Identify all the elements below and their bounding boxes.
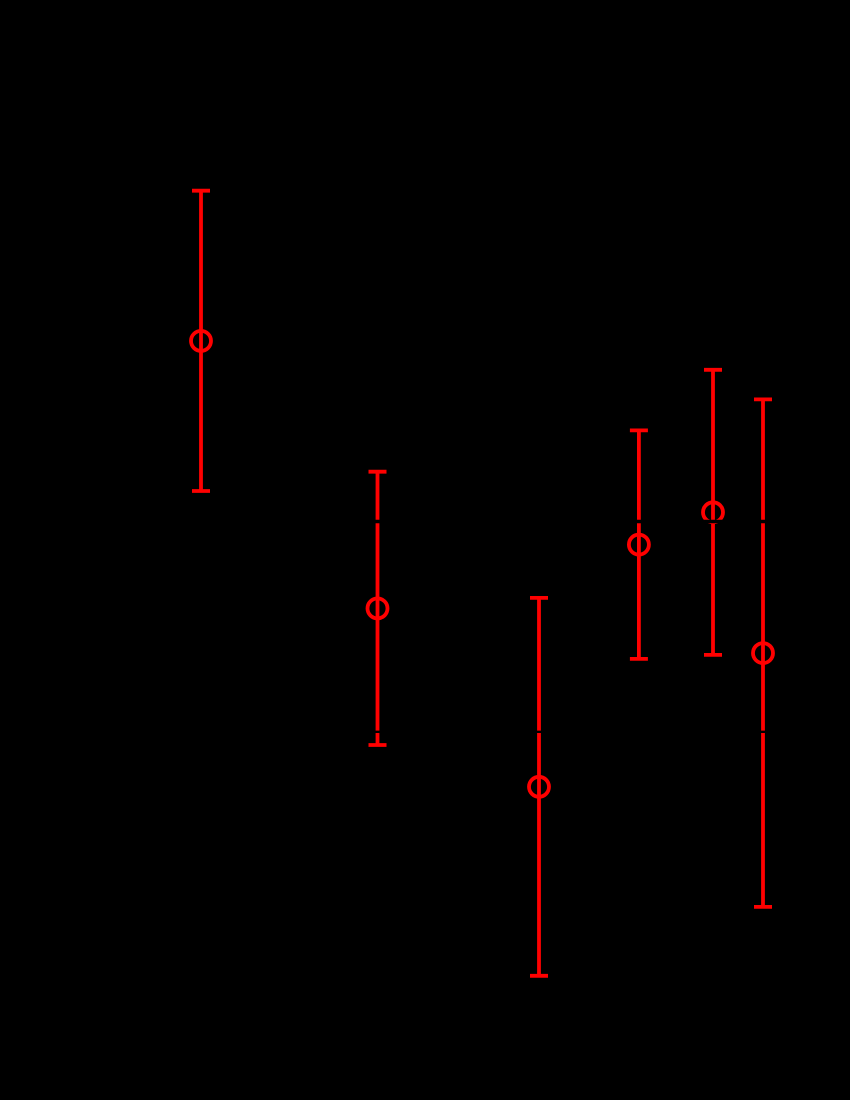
top cap 1 <box>192 189 210 193</box>
bottom cap 3 <box>530 974 548 978</box>
bottom cap 5 <box>704 653 722 657</box>
bottom cap 2 <box>369 743 387 747</box>
wire: CI vertical line 6 <box>761 399 765 907</box>
mean point circle 5 <box>703 502 723 522</box>
top cap 2 <box>369 470 387 474</box>
wire: CI vertical line 3 <box>537 598 541 976</box>
error bar group 1 <box>191 191 211 491</box>
error bar group 6 <box>753 399 773 907</box>
mean point circle 2 <box>368 598 388 618</box>
top cap 6 <box>754 397 772 401</box>
bottom cap 4 <box>630 657 648 661</box>
error bar group 5 <box>703 370 723 655</box>
mean point circle 3 <box>529 777 549 797</box>
error bar group 3 <box>529 598 549 976</box>
error bar group 4 <box>629 430 649 659</box>
wire: CI vertical line 2 <box>376 472 380 745</box>
bottom cap 6 <box>754 905 772 909</box>
error bar group 2 <box>368 472 388 745</box>
reference line B (black, overdraws red bars at y=731.8) <box>60 731 790 733</box>
top cap 5 <box>704 368 722 372</box>
mean point circle 4 <box>629 535 649 555</box>
wire: CI vertical line 5 <box>711 370 715 655</box>
bottom cap 1 <box>192 489 210 493</box>
top cap 3 <box>530 596 548 600</box>
reference line A (black, overdraws red bars at y=521.5) <box>60 520 790 524</box>
mean point circle 1 <box>191 331 211 351</box>
mean point circle 6 <box>753 643 773 663</box>
top cap 4 <box>630 428 648 432</box>
wire: CI vertical line 1 <box>199 191 203 491</box>
wire: CI vertical line 4 <box>637 430 641 659</box>
